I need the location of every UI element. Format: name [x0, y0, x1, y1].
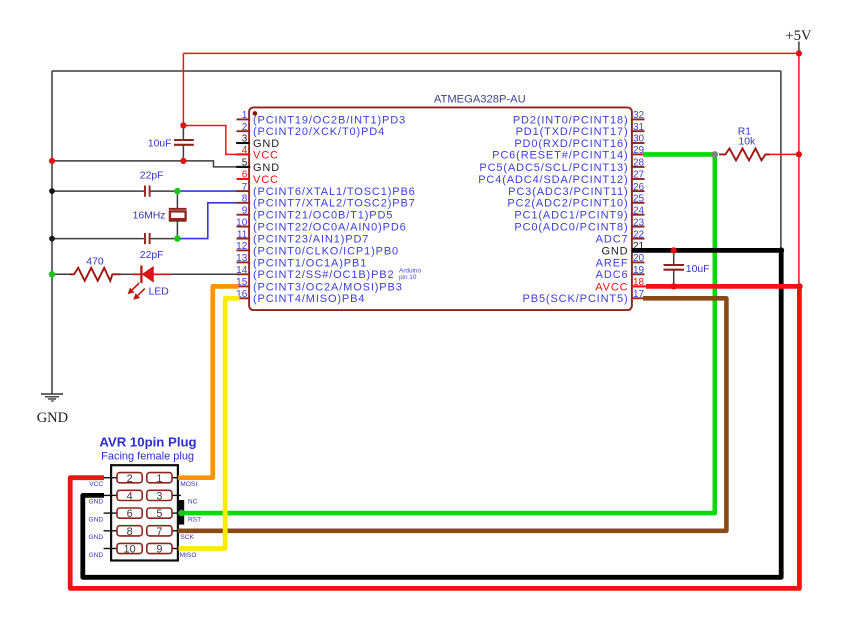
node RESET junction — [712, 151, 719, 158]
wire C1 bottom lead — [182, 146, 184, 161]
J1 pin 10 stub — [104, 548, 118, 550]
svg-text:(PCINT7/XTAL2/TOSC2)PB7: (PCINT7/XTAL2/TOSC2)PB7 — [253, 198, 416, 210]
svg-text:22pF: 22pF — [140, 170, 164, 181]
node GND rail left — [49, 158, 55, 164]
wire GND right drop — [780, 71, 782, 250]
U1 pin 3 stub — [237, 142, 251, 144]
wire MOSI orange net — [178, 286, 239, 477]
J1 pin 8 stub — [104, 530, 118, 532]
node LED rail — [49, 271, 56, 278]
svg-text:GND: GND — [601, 245, 628, 257]
svg-text:27: 27 — [633, 170, 645, 181]
U1 pin 9 stub — [237, 214, 251, 216]
U1 pin 4 stub — [237, 153, 251, 155]
J1 pin 3 stub — [172, 494, 182, 496]
svg-text:+5V: +5V — [786, 28, 812, 44]
svg-text:23: 23 — [633, 217, 645, 228]
svg-text:AREF: AREF — [596, 257, 629, 269]
svg-text:1: 1 — [156, 473, 162, 485]
svg-text:30: 30 — [633, 134, 645, 145]
svg-text:28: 28 — [633, 158, 645, 169]
svg-text:6: 6 — [242, 170, 248, 181]
wire +5V top rail — [183, 52, 799, 54]
svg-text:PC6(RESET#/PCINT14): PC6(RESET#/PCINT14) — [492, 149, 628, 161]
svg-text:PC3(ADC3/PCINT11): PC3(ADC3/PCINT11) — [508, 186, 628, 198]
capacitor C1 10uF — [174, 140, 194, 145]
svg-text:PB5(SCK/PCINT5): PB5(SCK/PCINT5) — [523, 293, 629, 305]
svg-text:3: 3 — [242, 134, 248, 145]
wire R1 to +5V — [770, 153, 799, 155]
capacitor C2 22pF — [145, 186, 150, 197]
wire pin 5 GND over stub — [236, 166, 250, 168]
wire pin 4 VCC over stub — [236, 153, 250, 155]
svg-text:VCC: VCC — [253, 149, 279, 161]
svg-text:2: 2 — [127, 473, 133, 485]
U1 pin 1 stub — [237, 118, 251, 120]
U1 pin 24 stub — [631, 214, 645, 216]
svg-text:18: 18 — [633, 277, 645, 288]
wire C2 to node XTAL1 — [150, 190, 177, 192]
svg-text:10uF: 10uF — [686, 264, 710, 275]
wire C1 top lead — [182, 126, 184, 140]
svg-text:17: 17 — [633, 289, 645, 300]
wire XTAL1 blue to pin 7 — [177, 190, 238, 192]
wire LED1 to pin 14 — [171, 273, 238, 275]
U1 pin 29 stub — [631, 153, 645, 155]
svg-text:16MHz: 16MHz — [133, 210, 166, 221]
ground — [41, 394, 63, 401]
svg-text:PD1(TXD/PCINT17): PD1(TXD/PCINT17) — [516, 126, 629, 138]
svg-text:24: 24 — [633, 205, 645, 216]
svg-text:7: 7 — [156, 526, 162, 538]
svg-text:19: 19 — [633, 265, 645, 276]
wire VCC thick red net — [70, 286, 799, 588]
svg-text:SCK: SCK — [180, 534, 194, 541]
U1 pin 6 stub — [237, 178, 251, 180]
svg-text:GND: GND — [89, 499, 104, 506]
wire VCC elbow to pin 4 — [183, 126, 250, 155]
svg-text:32: 32 — [633, 110, 645, 121]
svg-text:(PCINT1/OC1A)PB1: (PCINT1/OC1A)PB1 — [253, 257, 367, 269]
LED1 emission arrows — [128, 283, 145, 300]
svg-text:Facing female plug: Facing female plug — [101, 450, 194, 462]
svg-text:470: 470 — [86, 256, 104, 267]
svg-text:11: 11 — [237, 229, 248, 240]
svg-text:31: 31 — [633, 122, 645, 133]
power +5V symbol — [798, 42, 800, 54]
U1 pin 30 stub — [631, 142, 645, 144]
svg-text:4: 4 — [242, 145, 248, 156]
svg-text:(PCINT21/OC0B/T1)PD5: (PCINT21/OC0B/T1)PD5 — [253, 210, 393, 222]
LED LED1 — [132, 266, 171, 284]
svg-text:9: 9 — [156, 544, 162, 556]
node +5V top right — [796, 50, 802, 56]
svg-text:PC0(ADC0/PCINT8): PC0(ADC0/PCINT8) — [514, 222, 628, 234]
U1 pin 10 stub — [237, 226, 251, 228]
svg-text:10: 10 — [124, 544, 136, 556]
svg-text:GND: GND — [89, 552, 104, 559]
wire +5V left drop to C 10uF — [182, 53, 184, 125]
wire SCK brown net — [178, 298, 726, 531]
svg-text:GND: GND — [89, 534, 104, 541]
U1 pin 27 stub — [631, 178, 645, 180]
svg-text:PC1(ADC1/PCINT9): PC1(ADC1/PCINT9) — [514, 210, 628, 222]
svg-text:AVR 10pin Plug: AVR 10pin Plug — [99, 434, 196, 449]
svg-text:ADC7: ADC7 — [596, 234, 629, 246]
svg-text:VCC: VCC — [253, 174, 279, 186]
wire GND left rail — [51, 71, 53, 394]
node XTAL2 junction — [174, 235, 181, 242]
wire GND to pin 5 — [52, 161, 250, 167]
svg-text:(PCINT0/CLKO/ICP1)PB0: (PCINT0/CLKO/ICP1)PB0 — [253, 245, 399, 257]
U1 pin 16 stub — [237, 297, 251, 299]
svg-text:10uF: 10uF — [148, 139, 172, 150]
U1 pin 21 stub — [631, 249, 645, 251]
wire C4 bottom lead — [673, 270, 675, 286]
J1 pin 1 box — [147, 473, 172, 483]
crystal Y1 16MHz — [169, 209, 187, 221]
J1 pin 4 box — [117, 490, 142, 500]
wire rail to R2 — [52, 273, 70, 275]
J1 pin 9 box — [147, 543, 172, 553]
U1 pin 18 stub — [631, 285, 645, 287]
svg-text:PC2(ADC2/PCINT10): PC2(ADC2/PCINT10) — [507, 198, 628, 210]
U1 pin 14 stub — [237, 273, 251, 275]
wire pin 3 GND stub — [236, 142, 250, 144]
U1 pin 17 stub — [631, 297, 645, 299]
U1 pin 7 stub — [237, 190, 251, 192]
wire GND thick black net — [83, 250, 781, 577]
resistor R2 470 — [70, 268, 121, 281]
svg-text:PC4(ADC4/SDA/PCINT12): PC4(ADC4/SDA/PCINT12) — [478, 174, 628, 186]
J1 pin 2 stub — [104, 477, 118, 479]
node GND thick junction — [778, 247, 784, 253]
svg-text:7: 7 — [242, 182, 248, 193]
svg-text:6: 6 — [127, 508, 133, 520]
svg-text:GND: GND — [89, 516, 104, 523]
U1 pin 15 stub — [237, 285, 251, 287]
J1 pin 5 box — [147, 508, 172, 518]
wire GND top — [52, 70, 781, 72]
svg-text:MOSI: MOSI — [180, 481, 197, 488]
node AVCC +5V — [796, 283, 803, 290]
svg-text:pin 10: pin 10 — [399, 274, 417, 281]
U1 pin 22 stub — [631, 238, 645, 240]
svg-text:4: 4 — [127, 491, 133, 503]
svg-text:9: 9 — [242, 205, 248, 216]
capacitor C3 22pF — [145, 233, 150, 244]
svg-text:(PCINT22/OC0A/AIN0)PD6: (PCINT22/OC0A/AIN0)PD6 — [253, 222, 407, 234]
U1 pin 19 stub — [631, 273, 645, 275]
J1 pin 6 stub — [104, 512, 118, 514]
resistor R1 10k — [719, 148, 770, 160]
wire +5V right drop — [798, 53, 800, 286]
svg-text:3: 3 — [156, 491, 162, 503]
svg-text:GND: GND — [253, 138, 280, 150]
wire pin 6 VCC stub — [237, 178, 250, 180]
op-amp U1 body ATMEGA328P-AU — [249, 107, 632, 310]
svg-text:5: 5 — [242, 158, 248, 169]
J1 pin 5 stub — [172, 512, 182, 514]
svg-text:AVCC: AVCC — [595, 281, 628, 293]
svg-text:(PCINT3/OC2A/MOSI)PB3: (PCINT3/OC2A/MOSI)PB3 — [253, 281, 403, 293]
svg-text:25: 25 — [633, 194, 645, 205]
svg-text:PD0(RXD/PCINT16): PD0(RXD/PCINT16) — [514, 138, 628, 150]
svg-text:2: 2 — [242, 122, 248, 133]
svg-text:(PCINT6/XTAL1/TOSC1)PB6: (PCINT6/XTAL1/TOSC1)PB6 — [253, 186, 416, 198]
svg-text:10: 10 — [236, 217, 248, 228]
J1 pin 3 box — [147, 490, 172, 500]
J1 pin 6 box — [117, 508, 142, 518]
svg-text:(PCINT23/AIN1)PD7: (PCINT23/AIN1)PD7 — [253, 234, 369, 246]
svg-text:22pF: 22pF — [140, 250, 164, 261]
U1 pin 2 stub — [237, 130, 251, 132]
svg-text:RST: RST — [188, 516, 201, 523]
svg-text:1: 1 — [242, 110, 248, 121]
svg-text:ADC6: ADC6 — [596, 269, 629, 281]
svg-text:(PCINT19/OC2B/INT1)PD3: (PCINT19/OC2B/INT1)PD3 — [253, 114, 406, 126]
wire C4 top lead — [673, 250, 675, 264]
node XTAL1 rail — [49, 188, 55, 194]
J1 polarization bar — [178, 500, 185, 525]
wire pin 18 AVCC stub — [632, 285, 647, 287]
U1 pin 8 stub — [237, 202, 251, 204]
svg-text:(PCINT4/MISO)PB4: (PCINT4/MISO)PB4 — [253, 293, 365, 305]
svg-text:29: 29 — [633, 145, 645, 156]
J1 pin 9 stub — [172, 548, 182, 550]
U1 pin 26 stub — [631, 190, 645, 192]
node GND cap bottom — [180, 158, 186, 164]
wire R2 to LED1 — [121, 273, 133, 275]
U1 pin 13 stub — [237, 261, 251, 263]
svg-text:R1: R1 — [738, 126, 752, 137]
svg-text:(PCINT20/XCK/T0)PD4: (PCINT20/XCK/T0)PD4 — [253, 126, 385, 138]
wire MISO yellow net — [179, 298, 240, 548]
svg-text:12: 12 — [236, 241, 248, 252]
node VCC cap top — [180, 122, 186, 128]
svg-text:GND: GND — [253, 162, 280, 174]
node R1 +5V — [796, 151, 802, 157]
svg-text:VCC: VCC — [89, 481, 103, 488]
U1 pin 23 stub — [631, 226, 645, 228]
U1 pin 5 stub — [237, 166, 251, 168]
connector J1 body — [111, 465, 178, 560]
U1 pin 20 stub — [631, 261, 645, 263]
node J1 RST — [178, 510, 185, 517]
J1 pin 10 box — [117, 543, 142, 553]
node C4 GND — [671, 247, 677, 253]
U1 pin 1 mark — [253, 111, 258, 116]
svg-text:8: 8 — [127, 526, 133, 538]
J1 pin 7 box — [147, 526, 172, 536]
node XTAL2 rail — [49, 236, 55, 242]
U1 pin 31 stub — [631, 130, 645, 132]
U1 pin 28 stub — [631, 166, 645, 168]
svg-text:PD2(INT0/PCINT18): PD2(INT0/PCINT18) — [513, 114, 629, 126]
J1 pin 7 stub — [172, 530, 182, 532]
svg-text:GND: GND — [37, 410, 68, 426]
svg-text:PC5(ADC5/SCL/PCINT13): PC5(ADC5/SCL/PCINT13) — [479, 162, 628, 174]
svg-text:13: 13 — [236, 253, 248, 264]
svg-text:20: 20 — [633, 253, 645, 264]
wire XTAL2 blue to pin 8 — [177, 203, 238, 239]
svg-text:(PCINT2/SS#/OC1B)PB2: (PCINT2/SS#/OC1B)PB2 — [253, 269, 395, 281]
svg-text:10k: 10k — [739, 137, 757, 148]
svg-text:22: 22 — [633, 229, 645, 240]
svg-text:ATMEGA328P-AU: ATMEGA328P-AU — [434, 93, 526, 105]
J1 pin 4 stub — [104, 494, 118, 496]
J1 pin 1 stub — [172, 477, 182, 479]
J1 pin 2 box — [117, 473, 142, 483]
wire XTAL2 rail to C3 — [52, 238, 144, 240]
wire C3 to node XTAL2 — [150, 238, 177, 240]
svg-text:8: 8 — [242, 194, 248, 205]
svg-text:LED: LED — [149, 286, 169, 297]
U1 pin 11 stub — [237, 238, 251, 240]
node XTAL1 junction — [174, 188, 181, 195]
svg-text:14: 14 — [236, 265, 248, 276]
node C4 AVCC — [671, 283, 677, 289]
J1 pin 8 box — [117, 526, 142, 536]
svg-text:NC: NC — [188, 499, 198, 506]
capacitor C4 10uF — [664, 265, 685, 270]
wire crystal top lead — [176, 191, 178, 208]
svg-text:5: 5 — [156, 508, 162, 520]
U1 pin 25 stub — [631, 202, 645, 204]
wire XTAL1 rail to C2 — [52, 190, 144, 192]
wire crystal bottom lead — [176, 221, 178, 239]
svg-text:26: 26 — [633, 182, 645, 193]
wire RESET green net — [182, 154, 715, 513]
U1 pin 32 stub — [631, 118, 645, 120]
U1 pin 12 stub — [237, 249, 251, 251]
svg-text:MISO: MISO — [180, 552, 197, 559]
